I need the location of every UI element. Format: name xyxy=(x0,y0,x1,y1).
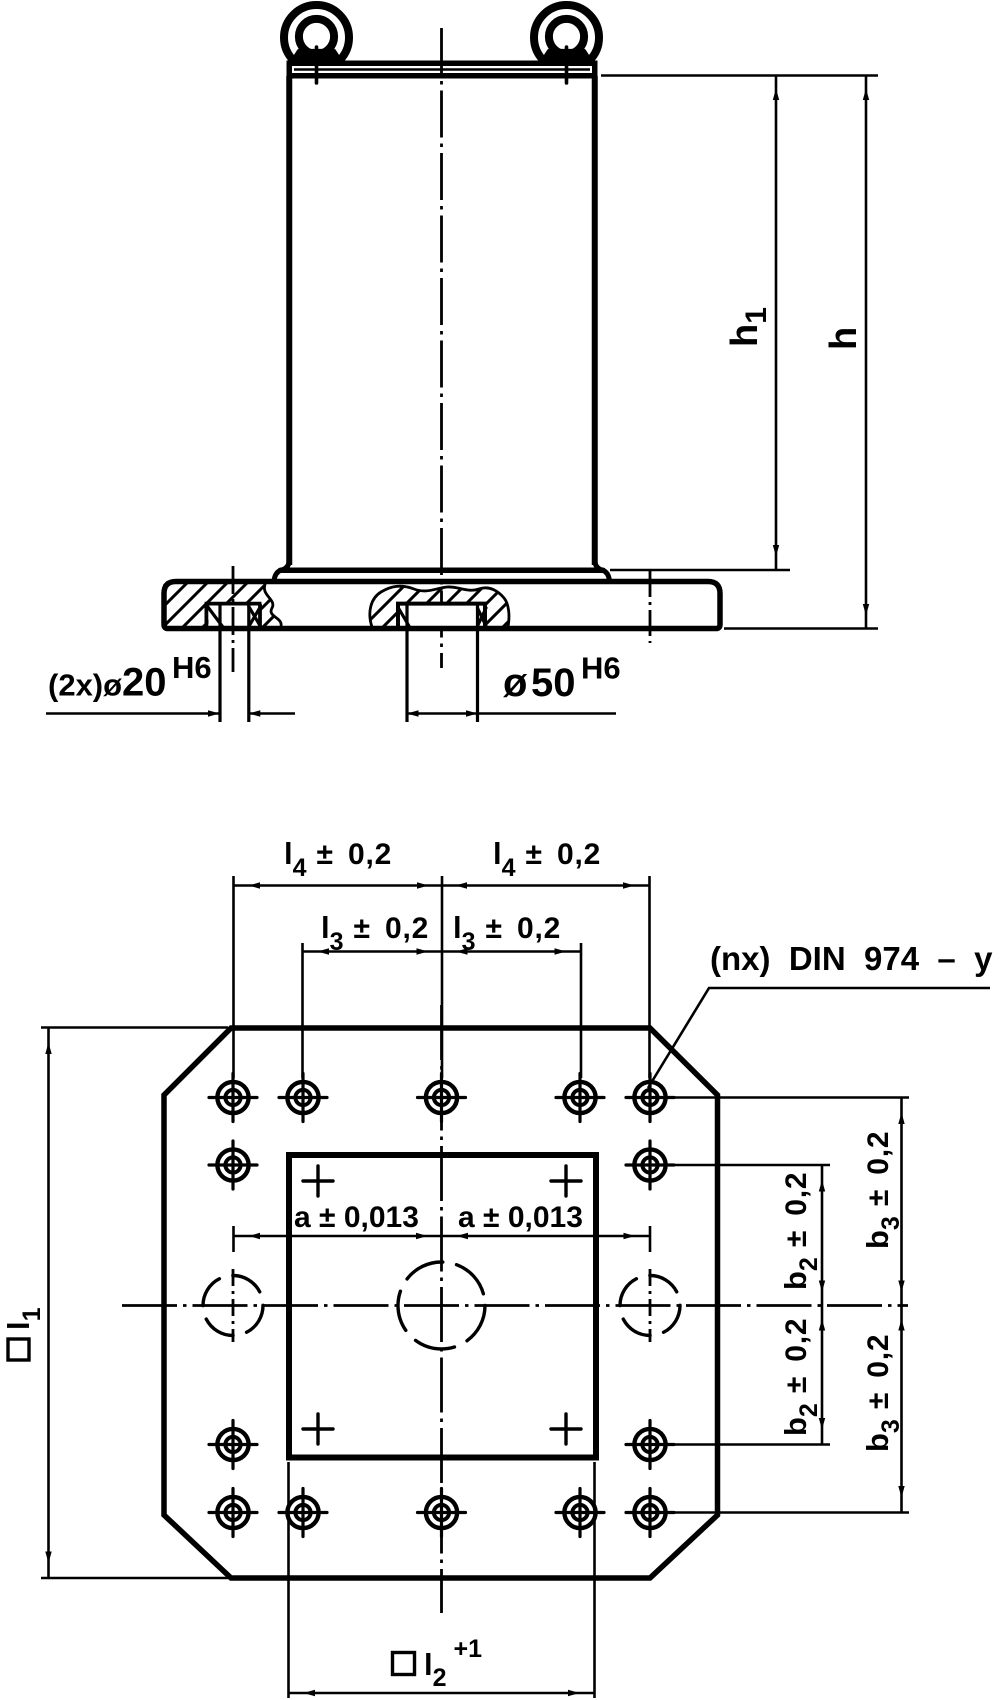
top plate chamfer line xyxy=(294,68,590,71)
dim a extension lines xyxy=(232,1226,235,1252)
dim l2 line xyxy=(289,1692,595,1695)
svg-text:50: 50 xyxy=(531,661,576,705)
dim h1 bottom extension line xyxy=(610,569,790,572)
dim l2 extension lines xyxy=(287,1462,290,1698)
dim l1 extension lines xyxy=(41,1026,228,1029)
dim b3 extension lines xyxy=(664,1096,909,1099)
corner cross bottom-left xyxy=(303,1414,333,1444)
hole 50H6 bore walls / extension lines xyxy=(405,604,408,722)
hole 50H6 top edge xyxy=(396,602,487,606)
eyebolt left ring xyxy=(284,5,349,70)
flange hatching left section xyxy=(120,580,330,630)
threaded hole symbols xyxy=(209,1074,674,1537)
hole 20H6 right recess wall xyxy=(258,604,262,628)
svg-text:ø: ø xyxy=(503,661,528,705)
dim l4 extension lines xyxy=(232,876,235,1078)
collar left fillets xyxy=(280,561,289,570)
dim h1 line xyxy=(775,76,778,571)
svg-text:20: 20 xyxy=(122,661,167,705)
hole r5c4 xyxy=(556,1489,604,1537)
hole r5c1 xyxy=(209,1489,257,1537)
collar right fillets xyxy=(595,561,604,570)
flange hatching middle section xyxy=(320,580,550,630)
corner cross bottom-right xyxy=(551,1414,581,1444)
hole 50H6 left recess wall xyxy=(396,604,400,628)
svg-text:l3±0,2: l3±0,2 xyxy=(321,910,429,956)
middle section break outline xyxy=(370,586,509,627)
hole 50H6 interior mask xyxy=(400,606,483,627)
plan vertical centerline xyxy=(440,1005,443,1613)
eyebolt left base xyxy=(293,51,341,61)
plate octagon outline xyxy=(164,1028,718,1578)
hole 20H6 chamfer right xyxy=(249,607,261,627)
svg-text:(nx) DIN 974 – y: (nx) DIN 974 – y xyxy=(710,940,993,977)
label square l2 +1 xyxy=(393,1653,415,1675)
dim l1 line xyxy=(47,1028,50,1579)
dim l4 line xyxy=(234,884,650,887)
hole r1c2 xyxy=(279,1074,327,1122)
hole r1c3 xyxy=(418,1074,466,1122)
hole r2c5 xyxy=(626,1141,674,1189)
svg-text:l3±0,2: l3±0,2 xyxy=(453,910,561,956)
hole r5c5 xyxy=(626,1489,674,1537)
hole 20H6 bore walls / extension lines xyxy=(218,604,221,722)
dim line o50 xyxy=(407,712,616,715)
eyebolt right base xyxy=(543,51,591,61)
corner cross top-left xyxy=(303,1166,333,1196)
eyebolt right ring xyxy=(534,5,599,70)
leader DIN 974 xyxy=(648,988,990,1088)
eyebolt right centerline xyxy=(565,47,569,83)
dim l3 line xyxy=(303,950,582,953)
svg-text:b3±0,2: b3±0,2 xyxy=(860,1131,905,1249)
hole 50H6 chamfer right xyxy=(478,608,487,626)
svg-text:(2x)ø: (2x)ø xyxy=(48,668,122,703)
svg-text:a ± 0,013: a ± 0,013 xyxy=(294,1201,419,1234)
hole r4c5 xyxy=(626,1421,674,1469)
dim line o20 xyxy=(46,712,220,715)
dashed circle middle xyxy=(398,1262,485,1349)
corner cross top-right xyxy=(551,1166,581,1196)
dim h bottom extension line xyxy=(724,627,878,630)
column left wall xyxy=(286,76,292,565)
plan horizontal centerline xyxy=(122,1304,908,1307)
top plate xyxy=(289,63,595,76)
mask under rings xyxy=(270,61,610,91)
flange outline xyxy=(164,582,720,629)
svg-text:h1: h1 xyxy=(724,307,773,347)
column right wall xyxy=(592,76,598,565)
right dowel hole centerline xyxy=(649,571,652,643)
dim b2 line xyxy=(821,1165,824,1445)
hole 50H6 chamfer left xyxy=(399,609,409,626)
hole 20H6 centerline xyxy=(232,566,235,672)
left section break wavy line xyxy=(264,582,281,627)
hole r5c2 xyxy=(279,1489,327,1537)
hole r1c1 xyxy=(209,1074,257,1122)
hole r2c1 xyxy=(209,1141,257,1189)
svg-text:b3±0,2: b3±0,2 xyxy=(860,1334,905,1452)
dashed circle right xyxy=(620,1276,680,1336)
hole r4c1 xyxy=(209,1421,257,1469)
svg-text:l4±0,2: l4±0,2 xyxy=(284,836,392,882)
hole r5c3 xyxy=(418,1489,466,1537)
svg-text:l2+1: l2+1 xyxy=(424,1635,482,1692)
hole 20H6 recess interior mask xyxy=(209,606,259,627)
main vertical centerline xyxy=(440,28,443,668)
dashed circle left xyxy=(203,1276,263,1336)
svg-text:h: h xyxy=(823,327,865,350)
hole 50H6 right recess wall xyxy=(483,604,487,628)
svg-text:l4±0,2: l4±0,2 xyxy=(493,836,601,882)
hole r1c4 xyxy=(556,1074,604,1122)
hole 20H6 top edge xyxy=(205,602,262,606)
hole r1c5 xyxy=(626,1074,674,1122)
inner square xyxy=(289,1155,596,1458)
label square l1 xyxy=(8,1339,29,1360)
svg-text:H6: H6 xyxy=(172,650,212,685)
dim b2 extension lines xyxy=(664,1164,830,1167)
eyebolt left centerline xyxy=(315,47,319,83)
svg-text:H6: H6 xyxy=(581,651,621,686)
svg-text:l1: l1 xyxy=(1,1307,46,1330)
hole 20H6 chamfer left xyxy=(208,607,223,627)
dim b3 line xyxy=(900,1098,903,1513)
dim a line xyxy=(234,1235,651,1238)
hole 20H6 left recess wall xyxy=(204,604,208,628)
dim h line xyxy=(865,76,868,629)
svg-text:b2±0,2: b2±0,2 xyxy=(778,1318,823,1436)
collar top line xyxy=(281,568,603,574)
svg-text:b2±0,2: b2±0,2 xyxy=(778,1172,823,1290)
svg-text:a ± 0,013: a ± 0,013 xyxy=(458,1201,583,1234)
dim h/h1 top extension line xyxy=(601,74,878,77)
dim l3 extension lines xyxy=(301,943,304,1078)
